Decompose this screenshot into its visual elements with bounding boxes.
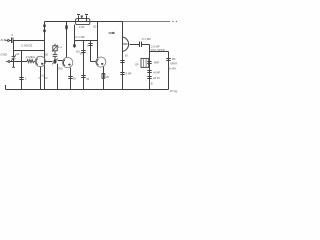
- node B- end mark: [170, 90, 173, 92]
- node B+ end dots: [172, 21, 177, 22]
- wire V2 cathode riser: [70, 68, 72, 90]
- node dot above C1: [12, 34, 13, 35]
- capacitor C5 box: [53, 53, 58, 55]
- capacitor C1 plates: [11, 38, 13, 44]
- svg-text:0.00035: 0.00035: [22, 43, 33, 47]
- wire V3 feed vertical: [97, 22, 99, 59]
- capacitor C10 marks: [120, 72, 124, 74]
- tube V3 cathode blob: [101, 63, 103, 65]
- tube V2 cathode blob: [68, 64, 70, 66]
- wire ant to C1: [9, 40, 11, 42]
- capacitor C9 marks: [120, 60, 124, 62]
- wire speaker feed: [150, 51, 169, 53]
- wire column bottom riser: [57, 64, 59, 90]
- svg-text:B: B: [151, 81, 153, 85]
- wire V1 cathode riser: [40, 67, 42, 90]
- wire detector bus: [75, 40, 98, 42]
- wire B+ top rail: [45, 21, 123, 23]
- svg-text:1 MF: 1 MF: [79, 25, 85, 29]
- wire V1 plate to network: [45, 61, 52, 63]
- wire output riser: [149, 45, 151, 90]
- transformer T1 posts: [78, 15, 80, 21]
- svg-text:MF: MF: [172, 57, 176, 61]
- wire T1 drop: [74, 25, 76, 48]
- tube V1 cathode blob: [41, 63, 43, 65]
- capacitor C2 variable tuning: [13, 51, 15, 57]
- wire V2 plate feed: [66, 22, 68, 58]
- tube V1 grid arc: [36, 59, 38, 65]
- wire V3 grid tap: [91, 61, 96, 63]
- capacitor C13 marks: [147, 76, 151, 78]
- wire column to V2 grid: [58, 60, 63, 62]
- wire output stage vertical: [122, 22, 124, 90]
- svg-text:B-: B-: [175, 90, 178, 94]
- capacitor C8 marks: [81, 75, 85, 77]
- coil L1 frame bottom: [14, 50, 45, 52]
- wire to V1 grid: [34, 61, 35, 63]
- tube V3 envelope: [96, 57, 106, 67]
- wire coupling right: [142, 44, 150, 46]
- capacitor C14 plates: [88, 43, 92, 45]
- terminal GND: [6, 61, 8, 63]
- svg-text:ANT: ANT: [0, 38, 6, 42]
- choke L3 blob: [65, 25, 68, 30]
- svg-text:SP: SP: [135, 63, 139, 67]
- tube V2 envelope: [62, 57, 72, 67]
- svg-text:+B 45: +B 45: [153, 76, 160, 80]
- tube V2 grid arc: [63, 60, 65, 66]
- potentiometer R2 box: [53, 46, 57, 51]
- resistor R3 blob: [73, 44, 76, 48]
- svg-text:SPKR: SPKR: [170, 61, 177, 65]
- svg-text:0.1 MF: 0.1 MF: [76, 35, 86, 39]
- choke L2 blobs: [43, 24, 46, 32]
- svg-text:30: 30: [93, 25, 97, 29]
- capacitor C12 marks: [147, 70, 151, 72]
- svg-text:50: 50: [45, 52, 49, 56]
- capacitor C6 marks: [68, 76, 72, 78]
- transformer T3 box: [141, 58, 149, 67]
- wire coupling: [130, 44, 139, 46]
- svg-text:0.1 MF: 0.1 MF: [142, 37, 152, 41]
- resistor R1 grid leak: [27, 60, 34, 63]
- svg-text:2 MEG: 2 MEG: [26, 55, 36, 59]
- wire V1 plate feed vertical: [44, 22, 46, 90]
- wire ground bottom rail: [6, 89, 169, 91]
- wire column stubs: [54, 44, 56, 46]
- wire grid input: [10, 61, 27, 63]
- svg-text:8 MF: 8 MF: [126, 71, 132, 75]
- svg-text:B+45V: B+45V: [168, 66, 176, 70]
- coil L1 frame top: [14, 40, 45, 42]
- tube V1 envelope: [35, 56, 45, 66]
- capacitor C15 marks: [147, 61, 151, 63]
- coil L1 frame left: [13, 41, 15, 51]
- svg-text:P.M. SPKR: P.M. SPKR: [151, 48, 165, 52]
- transformer T2 blob: [54, 59, 57, 63]
- arrow signal: [109, 32, 114, 34]
- capacitor C4 marks: [19, 77, 23, 79]
- svg-text:250: 250: [57, 67, 62, 71]
- svg-text:.05: .05: [72, 77, 76, 81]
- transformer T1 body: [76, 19, 90, 25]
- svg-text:.25: .25: [105, 75, 109, 79]
- capacitor C7 marks: [81, 50, 85, 52]
- svg-text:+8 MF: +8 MF: [153, 70, 161, 74]
- svg-text:2.1: 2.1: [58, 45, 63, 49]
- wire bypass riser: [83, 41, 85, 90]
- capacitor C16 marks: [166, 58, 170, 60]
- resistor R4 box: [102, 74, 105, 79]
- wire ground left stub: [5, 85, 7, 90]
- wire speaker riser: [168, 52, 170, 90]
- tube V4 envelope arc: [123, 37, 129, 51]
- svg-text:8MF: 8MF: [154, 60, 160, 64]
- wire riser from coil frame: [21, 51, 23, 90]
- wire V3 cathode riser: [103, 67, 105, 90]
- wire B+ top rail right dashed: [123, 21, 171, 23]
- tube V4 plate bar: [123, 43, 127, 45]
- tube V3 grid arc: [97, 59, 99, 65]
- terminal ANT: [5, 40, 7, 42]
- svg-text:GND: GND: [0, 53, 8, 57]
- wire T3 tick: [148, 62, 151, 64]
- capacitor C11 plates: [139, 42, 141, 48]
- capacitor C14 drop: [90, 41, 92, 62]
